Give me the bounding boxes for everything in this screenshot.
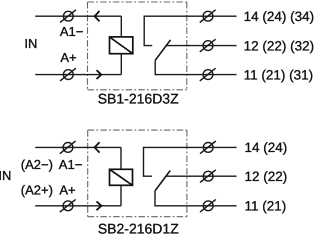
svg-text:14 (24) (34): 14 (24) (34) <box>244 9 315 24</box>
wire contact 14 path (SB1) <box>144 16 236 45</box>
wire A+ input line (SB1) <box>35 74 121 76</box>
terminal 14 (SB2) circle <box>203 143 213 153</box>
terminal 12 (SB1) slash <box>200 39 216 52</box>
terminal 11 (SB1) circle <box>203 70 213 80</box>
svg-text:14 (24): 14 (24) <box>245 140 288 155</box>
terminal A1- (SB2) slash <box>60 141 76 154</box>
svg-text:A+: A+ <box>59 183 75 198</box>
terminal A1- (SB1) circle <box>63 11 73 21</box>
arrow left on A1- line (SB1) <box>95 11 100 21</box>
enclosure dash-dot box U2 <box>88 130 187 217</box>
svg-text:SB1-216D3Z: SB1-216D3Z <box>98 90 179 106</box>
contact blade (SB1) <box>155 40 170 61</box>
wire A1- input line (SB2) <box>35 146 121 148</box>
svg-text:12 (22): 12 (22) <box>245 169 288 184</box>
terminal A+ (SB1) circle <box>63 70 73 80</box>
terminal 11 (SB1) slash <box>200 68 216 81</box>
terminal 14 (SB1) slash <box>200 10 216 23</box>
enclosure dash-dot box U1 <box>88 2 187 90</box>
svg-text:IN: IN <box>24 36 37 51</box>
svg-text:A1−: A1− <box>60 24 84 39</box>
terminal A+ (SB1) slash <box>60 68 76 81</box>
arrow right on A+ line (SB2) <box>97 201 102 210</box>
terminal 12 (SB2) slash <box>200 170 216 183</box>
terminal 14 (SB1) circle <box>203 11 213 21</box>
wire coil bottom stem (SB1) <box>120 54 122 75</box>
arrow left on A1- line (SB2) <box>95 142 100 152</box>
terminal A+ (SB2) circle <box>63 201 73 211</box>
terminal 12 (SB1) circle <box>203 41 213 51</box>
svg-text:A+: A+ <box>60 50 76 65</box>
svg-text:SB2-216D1Z: SB2-216D1Z <box>98 221 179 236</box>
terminal 11 (SB2) circle <box>203 201 213 211</box>
relay coil K2 (SB2) <box>110 169 133 185</box>
wire common 11 line (SB1) <box>155 60 236 74</box>
terminal 11 (SB2) slash <box>200 199 216 212</box>
wire contact 12 line (SB2) <box>166 175 236 177</box>
terminal 12 (SB2) circle <box>203 171 213 181</box>
wire coil top stem (SB2) <box>120 147 122 169</box>
terminal A1- (SB2) circle <box>63 143 73 153</box>
svg-text:12 (22) (32): 12 (22) (32) <box>244 38 315 53</box>
wire A+ input line (SB2) <box>35 205 121 207</box>
svg-text:A1−: A1− <box>59 157 83 172</box>
svg-text:11 (21): 11 (21) <box>245 199 287 214</box>
terminal A1- (SB1) slash <box>60 10 76 23</box>
svg-text:(A2+): (A2+) <box>21 183 53 198</box>
svg-text:IN: IN <box>0 168 11 183</box>
wire A1- input line (SB1) <box>35 15 121 17</box>
wire coil bottom stem (SB2) <box>120 185 122 206</box>
svg-text:11 (21) (31): 11 (21) (31) <box>244 67 314 82</box>
wire coil top stem (SB1) <box>120 16 122 37</box>
wire contact 14 path (SB2) <box>144 147 237 176</box>
relay coil K1 (SB1) <box>110 37 133 54</box>
terminal A+ (SB2) slash <box>60 199 76 212</box>
svg-text:(A2−): (A2−) <box>21 157 53 172</box>
arrow right on A+ line (SB1) <box>97 70 102 79</box>
contact blade (SB2) <box>155 171 170 191</box>
wire common 11 line (SB2) <box>155 191 237 206</box>
wire contact 12 line (SB1) <box>166 45 236 47</box>
terminal 14 (SB2) slash <box>200 141 216 154</box>
